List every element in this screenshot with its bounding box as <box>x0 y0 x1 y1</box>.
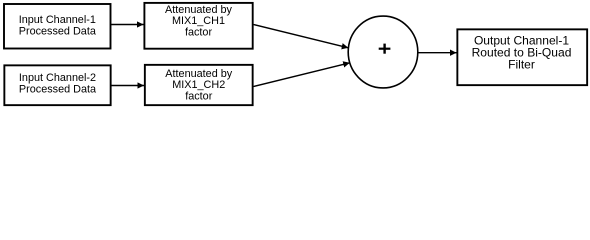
svg-text:factor: factor <box>185 26 213 38</box>
wire: box4 to summing circle <box>254 63 350 87</box>
block: Attenuated by MIX1_CH2 factor <box>145 65 253 105</box>
plus sign <box>379 48 391 50</box>
svg-text:factor: factor <box>185 90 213 102</box>
block: Input Channel-2 Processed Data <box>4 65 110 105</box>
block: Output Channel-1 Routed to Bi-Quad Filter <box>457 29 587 85</box>
svg-text:Input Channel-1: Input Channel-1 <box>19 14 96 26</box>
svg-text:Filter: Filter <box>508 57 535 71</box>
wire: box3 to box4 <box>111 85 144 87</box>
svg-text:Processed Data: Processed Data <box>19 84 97 96</box>
svg-text:Input Channel-2: Input Channel-2 <box>19 72 96 84</box>
block: Attenuated by MIX1_CH1 factor <box>144 3 252 49</box>
wire: box2 to summing circle <box>254 25 349 48</box>
svg-text:Processed Data: Processed Data <box>19 26 97 38</box>
summing junction circle <box>348 16 418 88</box>
svg-text:Attenuated by: Attenuated by <box>165 4 232 16</box>
block: Input Channel-1 Processed Data <box>4 4 111 49</box>
wire: box1 to box2 <box>111 24 144 26</box>
wire: summing circle to output box <box>419 52 457 54</box>
svg-text:MIX1_CH2: MIX1_CH2 <box>172 79 225 91</box>
svg-text:MIX1_CH1: MIX1_CH1 <box>172 15 225 27</box>
svg-text:Attenuated by: Attenuated by <box>165 68 232 80</box>
